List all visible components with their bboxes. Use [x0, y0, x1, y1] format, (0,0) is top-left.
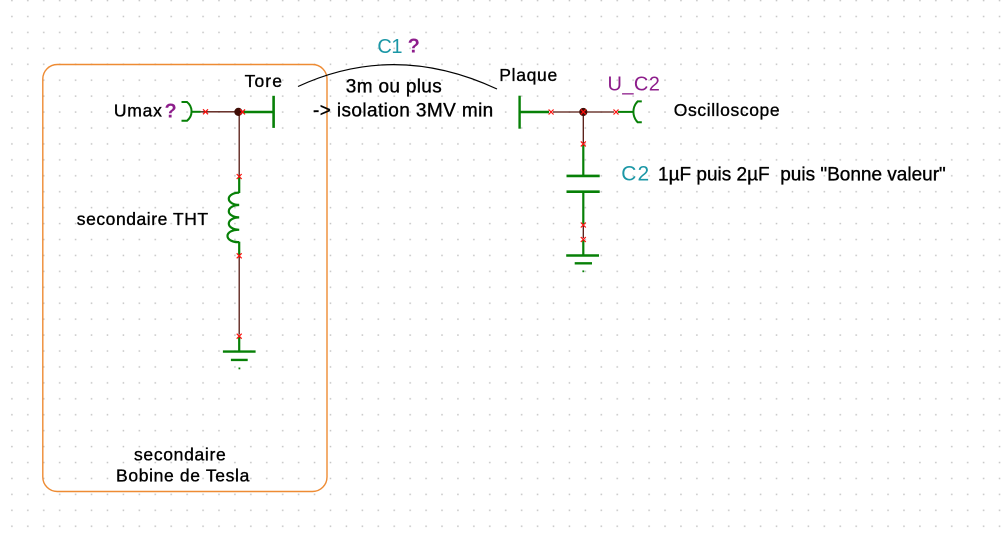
- svg-text:secondaire THT: secondaire THT: [77, 209, 209, 229]
- svg-text:3m ou plus: 3m ou plus: [346, 77, 442, 98]
- svg-text:secondaire: secondaire: [134, 444, 226, 464]
- svg-text:-> isolation 3MV min: -> isolation 3MV min: [313, 100, 494, 121]
- svg-text:1µF puis 2µF puis "Bonne vale: 1µF puis 2µF puis "Bonne valeur": [658, 164, 946, 185]
- svg-text:C1: C1: [377, 36, 402, 58]
- svg-text:?: ?: [165, 100, 177, 122]
- svg-text:Plaque: Plaque: [499, 65, 558, 85]
- svg-text:Bobine de Tesla: Bobine de Tesla: [116, 466, 250, 486]
- svg-text:C2: C2: [621, 162, 650, 185]
- svg-text:?: ?: [408, 36, 420, 58]
- svg-text:Tore: Tore: [245, 71, 283, 91]
- svg-text:Oscilloscope: Oscilloscope: [674, 100, 780, 120]
- svg-text:U_C2: U_C2: [608, 74, 661, 96]
- svg-text:Umax: Umax: [114, 100, 163, 120]
